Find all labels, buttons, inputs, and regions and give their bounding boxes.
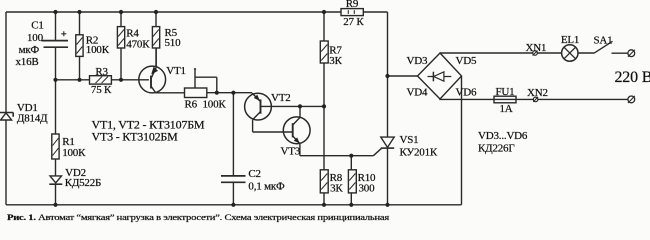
svg-text:КУ201К: КУ201К (400, 147, 438, 159)
node R7/top rail (322, 10, 326, 14)
diode VD2 (49, 167, 101, 205)
svg-text:470К: 470К (126, 38, 150, 50)
svg-text:220 В: 220 В (615, 69, 650, 86)
transistor VT1 (139, 48, 186, 93)
svg-text:100: 100 (27, 32, 44, 44)
svg-text:Д814Д: Д814Д (17, 113, 48, 125)
svg-text:R6: R6 (185, 99, 198, 111)
svg-text:VD3...VD6: VD3...VD6 (478, 130, 528, 142)
wire fuse line (440, 98, 628, 100)
svg-text:VS1: VS1 (400, 134, 419, 146)
svg-text:VT3: VT3 (281, 146, 301, 158)
svg-text:VD5: VD5 (456, 55, 477, 67)
svg-text:VT2: VT2 (271, 92, 291, 104)
node R4/base bus (119, 78, 123, 82)
wire VT2 base to R7/R8 node (271, 105, 324, 107)
capacitor C2 (221, 93, 285, 205)
svg-text:XN1: XN1 (526, 42, 547, 54)
wire lamp line (440, 52, 628, 54)
svg-text:3К: 3К (330, 183, 343, 195)
svg-text:VD6: VD6 (456, 86, 477, 98)
node VD2/bottom rail (53, 203, 57, 207)
svg-text:R3: R3 (95, 66, 108, 78)
svg-text:VT3 - КТ3102БМ: VT3 - КТ3102БМ (92, 129, 179, 143)
svg-text:Рис. 1. Автомат “мягкая” нагру: Рис. 1. Автомат “мягкая” нагрузка в элек… (7, 212, 389, 222)
svg-text:100К: 100К (86, 44, 110, 56)
svg-text:VT1: VT1 (166, 65, 186, 77)
resistor R10 (348, 156, 376, 205)
resistor R1 (52, 80, 86, 176)
capacitor C1 (16, 12, 69, 80)
svg-text:300: 300 (359, 183, 376, 195)
terminal bottom right (628, 96, 635, 103)
wire top rail (6, 11, 388, 13)
resistor R4 (117, 12, 150, 80)
node C1/top rail (53, 10, 57, 14)
transistor VT2 (245, 92, 293, 132)
zener VD1 (0, 102, 48, 125)
connector XN1 (526, 42, 547, 56)
svg-text:3К: 3К (329, 55, 342, 67)
resistor R5 (152, 12, 181, 67)
bridge rectifier VD3-VD6 (388, 53, 477, 99)
node R10/bottom rail (349, 203, 353, 207)
node C2/bottom rail (231, 203, 235, 207)
svg-text:0,1 мкФ: 0,1 мкФ (248, 180, 285, 192)
wire base bus (56, 79, 149, 81)
svg-text:VD4: VD4 (407, 86, 428, 98)
wire right vertical (bridge to bottom rail) (461, 76, 463, 205)
node R2/top rail (77, 10, 81, 14)
node R8/bottom rail (322, 203, 326, 207)
svg-text:100К: 100К (62, 147, 86, 159)
wire left rail (5, 12, 7, 205)
node R10/gate wire (349, 154, 353, 158)
node bridge AC input (385, 74, 389, 78)
switch SA1 (594, 35, 613, 54)
node C2/emitter wire (231, 91, 235, 95)
wire R6 to VT2 emitter (207, 92, 252, 94)
svg-text:27 К: 27 К (343, 16, 364, 28)
svg-text:х16В: х16В (16, 56, 39, 68)
svg-text:R9: R9 (346, 0, 359, 10)
svg-text:мкФ: мкФ (19, 44, 40, 56)
wire VT3 emitter / VS1 gate bus (300, 155, 374, 157)
svg-text:C2: C2 (248, 168, 260, 180)
svg-text:FU1: FU1 (496, 86, 515, 98)
svg-text:75 К: 75 К (91, 84, 112, 96)
label transistor types (92, 117, 205, 143)
node C1/R1/base bus (53, 78, 57, 82)
svg-text:КД522Б: КД522Б (65, 177, 101, 189)
terminal top right (628, 50, 635, 57)
lamp EL1 (561, 34, 579, 61)
node VT3 collector/base wire (298, 104, 302, 108)
resistor R3 (90, 66, 113, 96)
node R2/base bus (77, 78, 81, 82)
resistor R2 (76, 12, 110, 80)
thyristor VS1 (373, 12, 438, 205)
svg-text:VD3: VD3 (407, 55, 428, 67)
svg-text:SA1: SA1 (594, 35, 613, 47)
node R6/wiper junction (215, 91, 219, 95)
svg-text:XN2: XN2 (527, 87, 548, 99)
label VD3...VD6 type (478, 130, 528, 155)
svg-text:1А: 1А (500, 103, 513, 115)
node VS1/bottom rail (385, 203, 389, 207)
node R7/R8/VT2 base (322, 104, 326, 108)
node R4/top rail (119, 10, 123, 14)
resistor R8 (320, 106, 343, 204)
svg-text:100К: 100К (203, 99, 227, 111)
svg-text:EL1: EL1 (561, 34, 579, 46)
svg-text:510: 510 (165, 37, 182, 49)
node R5/top rail (154, 10, 158, 14)
resistor R9 (341, 0, 364, 28)
resistor R7 (320, 12, 342, 106)
transistor VT3 (281, 106, 311, 157)
fuse FU1 (494, 86, 516, 115)
resistor R6 (trimmer) (185, 69, 227, 111)
svg-text:C1: C1 (31, 20, 43, 32)
wire bottom rail (6, 204, 462, 206)
connector XN2 (527, 87, 548, 102)
svg-text:КД226Г: КД226Г (478, 143, 515, 155)
